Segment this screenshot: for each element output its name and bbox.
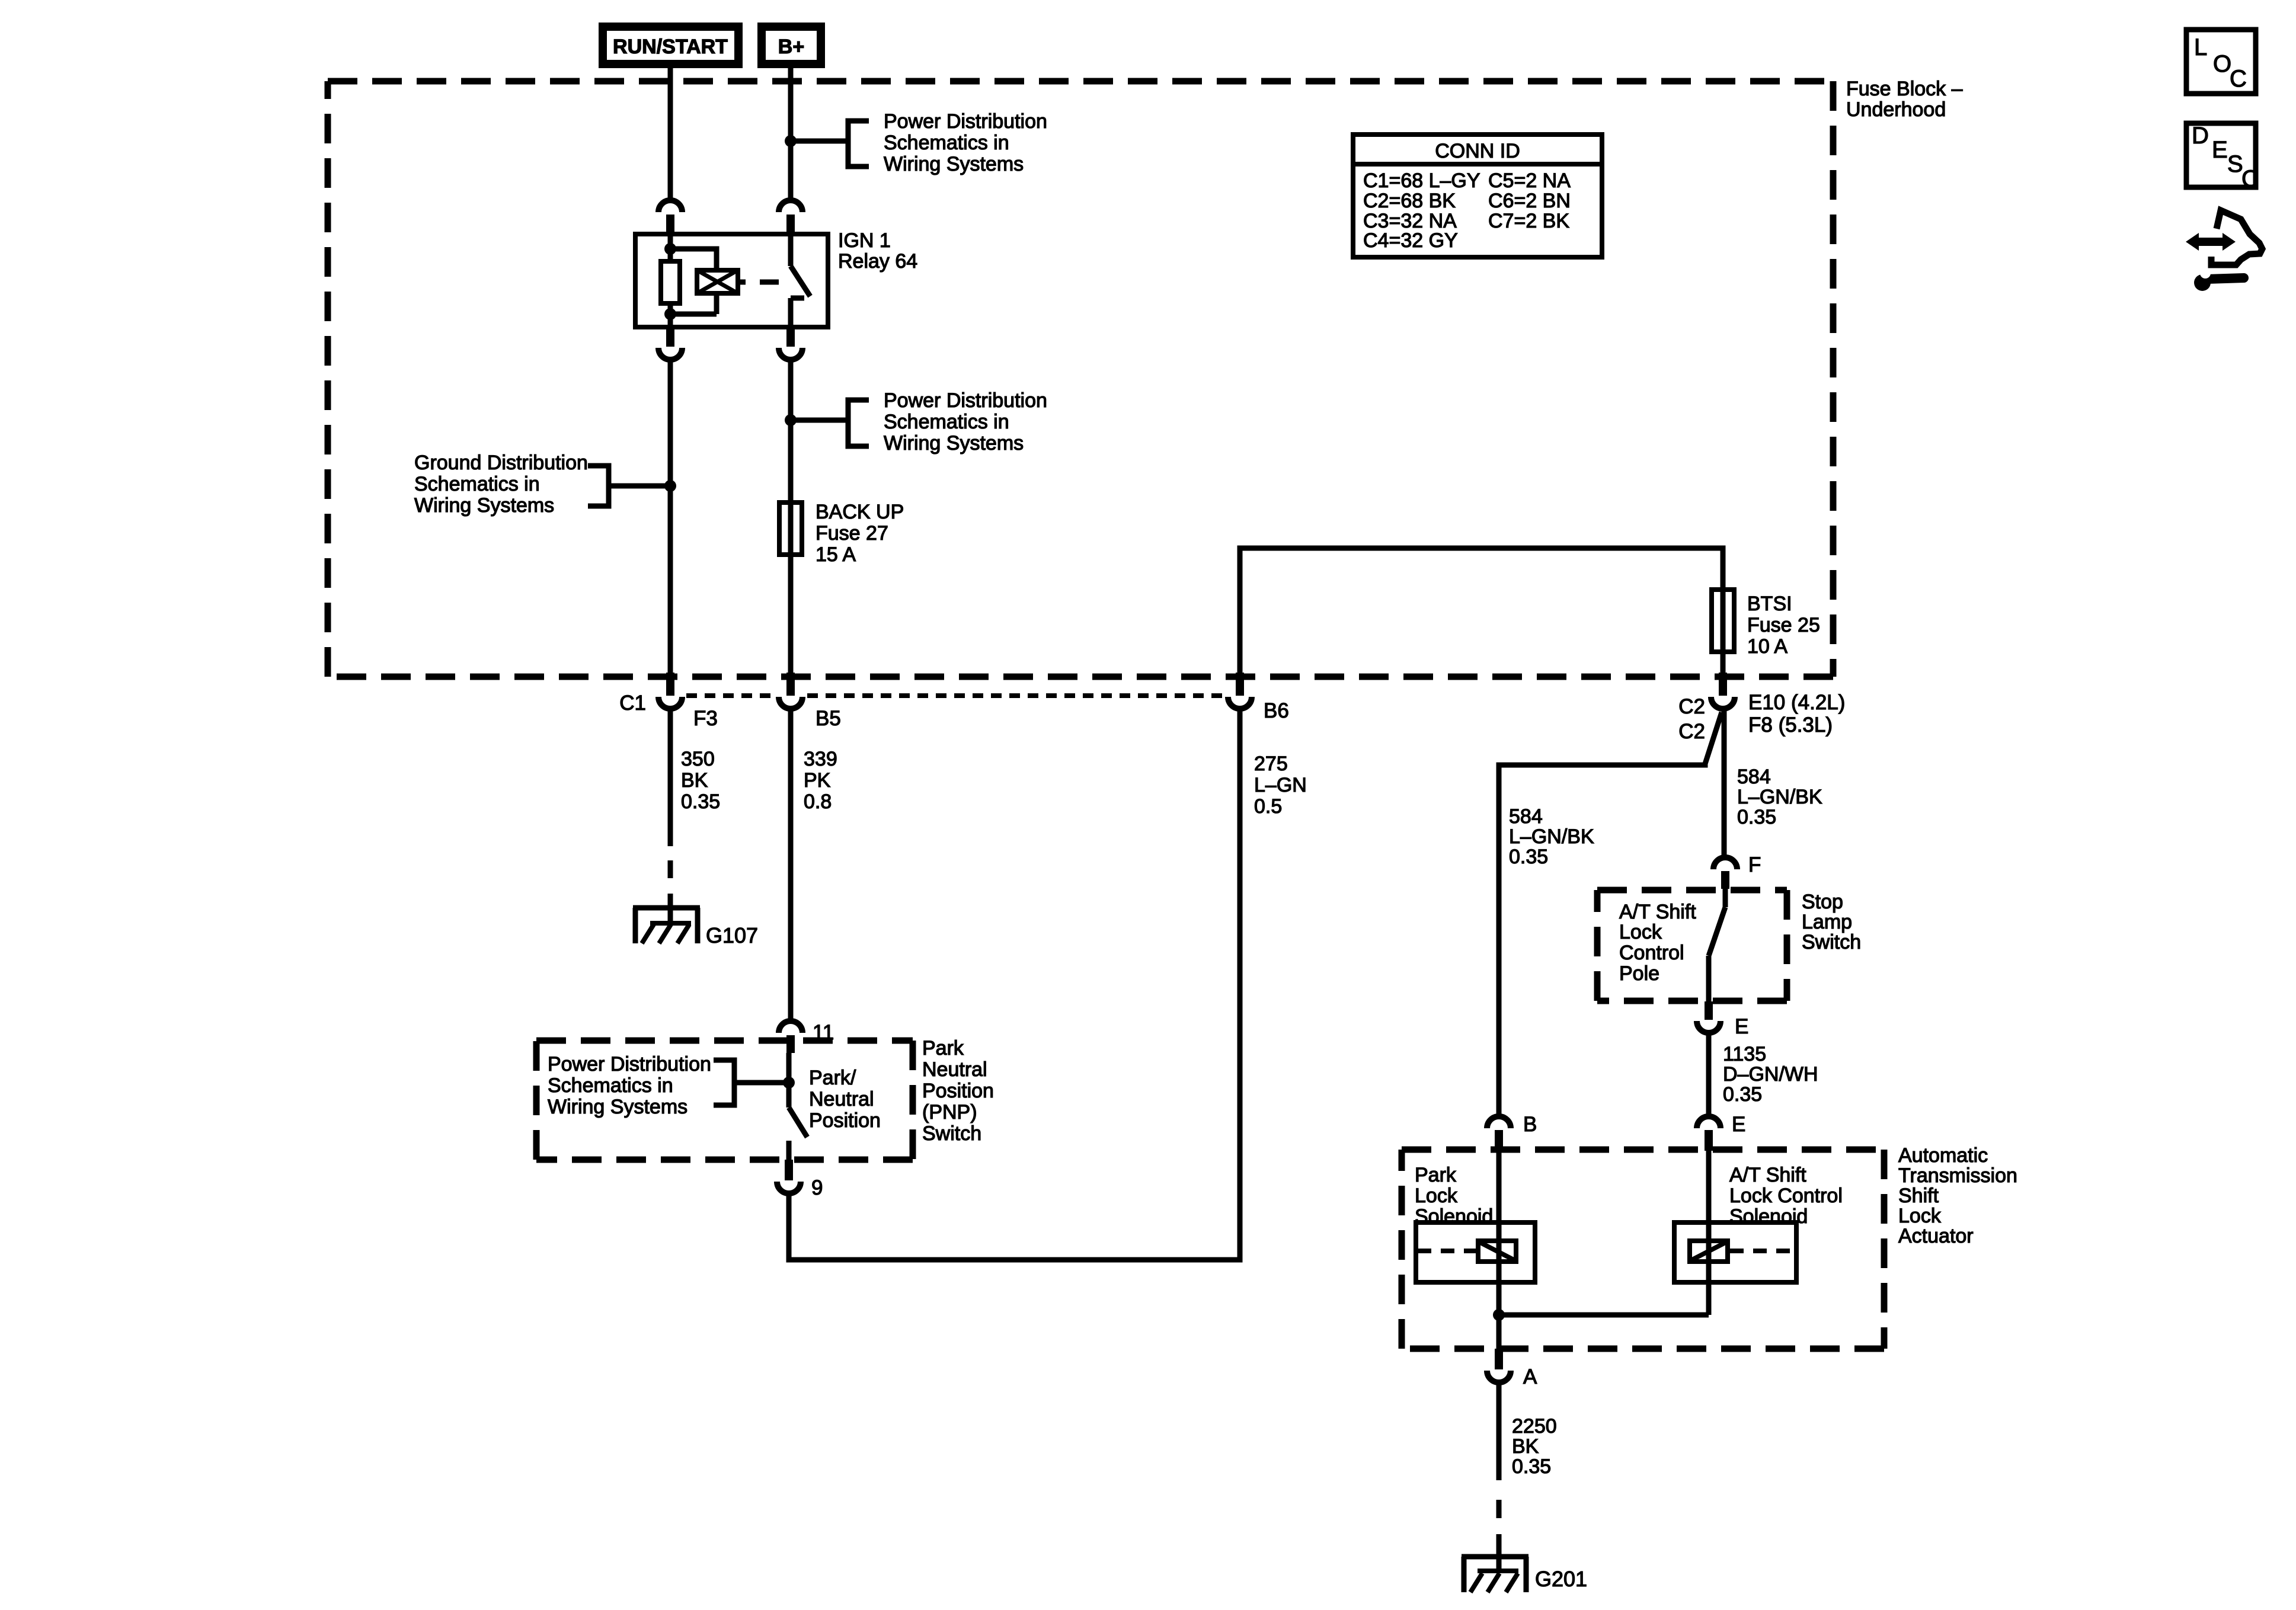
- icon LOC box: [2186, 30, 2256, 94]
- junction dot PNP feed: [783, 1077, 795, 1089]
- svg-text:E: E: [1735, 1015, 1748, 1038]
- PNP switch dashed box: [536, 1041, 913, 1160]
- svg-text:Position: Position: [922, 1080, 994, 1102]
- svg-text:B+: B+: [778, 36, 804, 58]
- svg-text:Control: Control: [1619, 942, 1684, 964]
- svg-text:Relay 64: Relay 64: [838, 250, 917, 273]
- svg-text:C: C: [2241, 166, 2259, 192]
- svg-text:0.35: 0.35: [1737, 806, 1776, 828]
- svg-text:0.5: 0.5: [1254, 795, 1282, 818]
- svg-text:C2: C2: [1678, 695, 1705, 718]
- PNP switch lower contact: [786, 1141, 792, 1160]
- wire: relay to C1: [668, 360, 673, 673]
- icon double arrow: [2186, 233, 2236, 251]
- connector B actuator: [1487, 1116, 1511, 1151]
- svg-text:Lock: Lock: [1415, 1185, 1458, 1207]
- svg-text:350: 350: [681, 748, 715, 770]
- svg-text:C2: C2: [1678, 720, 1705, 743]
- svg-text:S: S: [2227, 151, 2243, 177]
- junction dot solenoid common: [1493, 1309, 1505, 1321]
- label: Park Lock Solenoid: [1415, 1164, 1493, 1228]
- svg-text:C7=2 BK: C7=2 BK: [1488, 210, 1569, 232]
- wire: splice dash to G201: [1496, 1500, 1502, 1571]
- stop lamp switch dashed box: [1597, 890, 1787, 1001]
- svg-text:Shift: Shift: [1898, 1185, 1939, 1207]
- svg-text:Underhood: Underhood: [1846, 98, 1946, 121]
- svg-text:D: D: [2192, 123, 2209, 149]
- svg-text:Transmission: Transmission: [1898, 1164, 2017, 1187]
- fuse BTSI Fuse 25: [1712, 590, 1734, 652]
- svg-text:CONN ID: CONN ID: [1435, 140, 1520, 162]
- svg-text:F8 (5.3L): F8 (5.3L): [1748, 713, 1833, 737]
- svg-text:Neutral: Neutral: [922, 1058, 987, 1081]
- svg-text:C1=68 L–GY: C1=68 L–GY: [1363, 169, 1480, 192]
- connector dashed line C1: [686, 693, 1223, 698]
- svg-text:Lamp: Lamp: [1802, 911, 1852, 933]
- actuator dashed box: [1402, 1150, 1884, 1349]
- svg-text:B6: B6: [1264, 699, 1289, 722]
- svg-text:15 A: 15 A: [816, 543, 856, 566]
- wire: branch to power distribution ref 2: [791, 418, 847, 423]
- wire: relay 87 down to fuse: [788, 360, 794, 673]
- connector E actuator: [1697, 1116, 1721, 1151]
- svg-text:A: A: [1523, 1365, 1537, 1388]
- label C2 C2: [1678, 695, 1705, 743]
- bracket: power distribution ref 1: [848, 121, 869, 167]
- label: power distribution ref 2: [884, 389, 1047, 454]
- ground G201: [1462, 1557, 1528, 1592]
- svg-text:Stop: Stop: [1802, 891, 1843, 913]
- svg-text:Fuse 25: Fuse 25: [1747, 614, 1820, 636]
- svg-text:Ground Distribution: Ground Distribution: [414, 452, 588, 474]
- wire: A down: [1496, 1382, 1502, 1480]
- relay switch arm: [791, 266, 810, 296]
- relay linkage dash: [760, 280, 779, 285]
- svg-text:Park: Park: [1415, 1164, 1457, 1186]
- bracket: ground distribution ref: [588, 466, 609, 506]
- label: wire 339 PK 0.8: [804, 748, 837, 813]
- svg-text:Fuse Block –: Fuse Block –: [1846, 78, 1963, 100]
- bracket: power distribution ref 3: [714, 1060, 734, 1105]
- svg-text:BACK UP: BACK UP: [816, 501, 904, 523]
- svg-text:L: L: [2194, 34, 2207, 60]
- label: Park Neutral Position (PNP) Switch: [922, 1037, 994, 1145]
- connector C1 at fuse block: [658, 673, 682, 709]
- svg-text:RUN/START: RUN/START: [613, 36, 728, 58]
- power feed box B+: [757, 23, 825, 68]
- svg-text:C: C: [2230, 66, 2247, 92]
- connector A: [1487, 1349, 1511, 1382]
- svg-text:0.35: 0.35: [1509, 846, 1548, 868]
- PNP switch arm: [789, 1108, 807, 1137]
- resistor in relay: [661, 261, 680, 303]
- bracket: power distribution ref 2: [848, 400, 869, 446]
- connector pin 9: [777, 1160, 801, 1193]
- wire: E through A/T solenoid: [1706, 1150, 1712, 1315]
- junction dot power distribution branch 2: [785, 414, 797, 426]
- svg-text:B5: B5: [816, 707, 841, 730]
- connector pin 11: [779, 1021, 802, 1053]
- label: power distribution ref 3: [548, 1053, 711, 1118]
- svg-text:0.8: 0.8: [804, 790, 832, 813]
- wire through BTSI: [1721, 590, 1726, 673]
- A/T solenoid coil slash: [1690, 1241, 1728, 1261]
- label: A/T Shift Lock Control Pole: [1619, 901, 1696, 985]
- svg-text:C4=32 GY: C4=32 GY: [1363, 229, 1458, 252]
- svg-text:Switch: Switch: [922, 1122, 981, 1145]
- label: wire 350 BK 0.35: [681, 748, 720, 813]
- svg-text:339: 339: [804, 748, 837, 770]
- svg-text:Schematics in: Schematics in: [884, 411, 1009, 433]
- relay coil X: [697, 270, 738, 293]
- svg-text:G107: G107: [706, 923, 758, 948]
- svg-text:C6=2 BN: C6=2 BN: [1488, 190, 1571, 212]
- svg-text:D–GN/WH: D–GN/WH: [1723, 1063, 1818, 1086]
- svg-text:C5=2 NA: C5=2 NA: [1488, 169, 1571, 192]
- relay IGN 1 Relay 64 box: [635, 234, 828, 327]
- svg-text:Automatic: Automatic: [1898, 1144, 1988, 1167]
- relay node dot bottom: [664, 308, 676, 320]
- A/T solenoid dashed linkage: [1730, 1249, 1795, 1253]
- park solenoid coil: [1478, 1241, 1516, 1262]
- wire: B through park solenoid: [1496, 1150, 1502, 1315]
- svg-text:E: E: [1732, 1113, 1745, 1136]
- svg-text:Park: Park: [922, 1037, 964, 1060]
- svg-text:0.35: 0.35: [681, 790, 720, 813]
- wire: common down to A: [1496, 1315, 1502, 1349]
- power feed box RUN/START: [599, 23, 743, 68]
- wire: RUN/START feed down: [668, 68, 673, 201]
- svg-text:Schematics in: Schematics in: [414, 473, 540, 495]
- svg-text:BTSI: BTSI: [1747, 593, 1792, 615]
- wire: branch to power distribution ref 1: [791, 139, 847, 144]
- svg-text:E10 (4.2L): E10 (4.2L): [1748, 691, 1845, 714]
- wire: splice dash to G107: [668, 860, 673, 922]
- relay switch upper wire: [788, 234, 794, 266]
- icon wrench: [2194, 268, 2244, 291]
- label: Park/Neutral Position: [809, 1067, 881, 1132]
- svg-text:10 A: 10 A: [1747, 635, 1787, 658]
- wire: pin 11 into switch: [786, 1053, 792, 1108]
- svg-text:584: 584: [1737, 766, 1771, 788]
- connector at relay top left: [658, 200, 682, 234]
- relay node dot top: [664, 243, 676, 255]
- connector at relay bottom left: [658, 327, 682, 360]
- svg-text:E: E: [2212, 137, 2228, 163]
- svg-text:Schematics in: Schematics in: [884, 132, 1009, 154]
- relay coil feed wire top: [668, 234, 673, 261]
- label: Automatic Transmission Shift Lock Actuator: [1898, 1144, 2017, 1247]
- wire: B+ feed down: [788, 68, 794, 201]
- connector B6 at fuse block: [1228, 673, 1252, 709]
- svg-text:A/T Shift: A/T Shift: [1619, 901, 1696, 923]
- svg-text:L–GN/BK: L–GN/BK: [1509, 825, 1594, 848]
- svg-text:F: F: [1748, 853, 1761, 876]
- relay coil right stub: [738, 280, 746, 285]
- wire: E to actuator: [1706, 1033, 1712, 1116]
- label: wire 275 L-GN 0.5: [1254, 753, 1307, 818]
- wire: B5 down to PNP pin 11: [788, 709, 794, 1021]
- wire: branch to ground distribution ref: [609, 484, 670, 489]
- svg-text:L–GN: L–GN: [1254, 774, 1307, 796]
- wire: C2 down to F: [1722, 709, 1727, 857]
- label: wire 1135 D-GN/WH 0.35: [1723, 1043, 1818, 1106]
- svg-text:F3: F3: [693, 707, 718, 730]
- svg-text:2250: 2250: [1512, 1415, 1557, 1438]
- relay coil box: [697, 270, 738, 293]
- label: power distribution ref 1: [884, 110, 1047, 175]
- label: A/T Shift Lock Control Solenoid: [1729, 1164, 1843, 1228]
- wire: solenoid commons joined: [1499, 1313, 1709, 1318]
- svg-text:0.35: 0.35: [1512, 1455, 1551, 1478]
- svg-text:A/T Shift: A/T Shift: [1729, 1164, 1806, 1186]
- svg-text:Power Distribution: Power Distribution: [884, 389, 1047, 412]
- svg-text:Neutral: Neutral: [809, 1088, 874, 1110]
- connector E stop lamp: [1697, 1001, 1721, 1033]
- connector at relay top right: [779, 200, 802, 234]
- svg-text:Wiring Systems: Wiring Systems: [884, 432, 1024, 454]
- label: BACK UP Fuse 27 15 A: [816, 501, 904, 566]
- A/T shift lock control solenoid box: [1674, 1222, 1796, 1282]
- CONN ID table: [1353, 135, 1602, 257]
- svg-text:9: 9: [811, 1176, 823, 1199]
- label: wire 584 left: [1509, 805, 1594, 868]
- svg-text:PK: PK: [804, 769, 831, 792]
- svg-text:0.35: 0.35: [1723, 1083, 1762, 1106]
- svg-text:Schematics in: Schematics in: [548, 1074, 673, 1097]
- junction dot B+ branch: [785, 135, 797, 147]
- svg-text:Park/: Park/: [809, 1067, 856, 1089]
- label: wire 584 right: [1737, 766, 1822, 828]
- svg-text:Wiring Systems: Wiring Systems: [548, 1096, 687, 1118]
- label: ground distribution ref: [414, 452, 588, 517]
- label E10 F8: [1748, 691, 1845, 737]
- label: Fuse Block - Underhood: [1846, 78, 1963, 121]
- fuse block underhood dashed box: [328, 81, 1833, 677]
- label: Stop Lamp Switch: [1802, 891, 1861, 953]
- wire: C2 left branch 584 to B: [1499, 712, 1722, 1116]
- relay coil feed wire bottom: [668, 303, 673, 327]
- svg-text:(PNP): (PNP): [922, 1101, 977, 1124]
- svg-text:Wiring Systems: Wiring Systems: [884, 153, 1024, 175]
- label: wire 2250 BK 0.35: [1512, 1415, 1557, 1478]
- wire: branch to power distribution ref 3: [735, 1080, 789, 1086]
- park solenoid dashed linkage: [1418, 1249, 1477, 1253]
- wire: fuse block internal B6 to BTSI: [1240, 548, 1723, 673]
- fuse BACK UP Fuse 27: [779, 502, 802, 555]
- junction dot ground distribution branch: [664, 480, 676, 492]
- svg-text:C1: C1: [619, 692, 646, 715]
- stop lamp switch pole wire: [1723, 889, 1728, 907]
- svg-text:Lock Control: Lock Control: [1729, 1185, 1843, 1207]
- svg-text:Fuse 27: Fuse 27: [816, 522, 888, 545]
- svg-text:Wiring Systems: Wiring Systems: [414, 494, 554, 517]
- svg-text:275: 275: [1254, 753, 1288, 775]
- svg-text:BK: BK: [681, 769, 708, 792]
- wire: pin 9 to B6: [789, 709, 1240, 1260]
- stop lamp switch arm: [1709, 907, 1725, 956]
- svg-text:584: 584: [1509, 805, 1543, 828]
- svg-text:Lock: Lock: [1898, 1205, 1942, 1227]
- svg-text:Switch: Switch: [1802, 931, 1861, 953]
- ground G107: [633, 908, 700, 943]
- icon DESC box: [2186, 123, 2259, 192]
- park solenoid coil slash: [1478, 1241, 1516, 1261]
- svg-text:Power Distribution: Power Distribution: [548, 1053, 711, 1076]
- park lock solenoid box: [1416, 1222, 1535, 1282]
- label: BTSI Fuse 25 10 A: [1747, 593, 1820, 658]
- stop lamp switch lower wire: [1706, 956, 1712, 1001]
- svg-text:Position: Position: [809, 1109, 881, 1132]
- wire: C1 to ground G107: [668, 709, 673, 846]
- svg-text:L–GN/BK: L–GN/BK: [1737, 786, 1822, 808]
- svg-text:Power Distribution: Power Distribution: [884, 110, 1047, 133]
- relay switch lower contact: [791, 298, 804, 327]
- A/T solenoid coil: [1690, 1241, 1728, 1262]
- svg-text:BK: BK: [1512, 1435, 1539, 1458]
- svg-text:IGN 1: IGN 1: [838, 229, 891, 252]
- svg-text:1135: 1135: [1723, 1043, 1766, 1065]
- svg-text:Pole: Pole: [1619, 962, 1659, 985]
- wire: coil parallel loop: [670, 249, 717, 314]
- connector C2 at fuse block: [1711, 673, 1735, 709]
- svg-text:O: O: [2213, 51, 2231, 77]
- connector F: [1713, 857, 1737, 889]
- label: IGN 1 Relay 64: [838, 229, 917, 273]
- connector at relay bottom right: [779, 327, 802, 360]
- icon vehicle outline: [2211, 210, 2262, 265]
- svg-text:Actuator: Actuator: [1898, 1225, 1974, 1247]
- svg-text:B: B: [1523, 1113, 1537, 1136]
- svg-text:Lock: Lock: [1619, 921, 1662, 943]
- svg-text:G201: G201: [1535, 1567, 1587, 1591]
- connector B5 at fuse block: [779, 673, 802, 709]
- svg-text:C2=68 BK: C2=68 BK: [1363, 190, 1456, 212]
